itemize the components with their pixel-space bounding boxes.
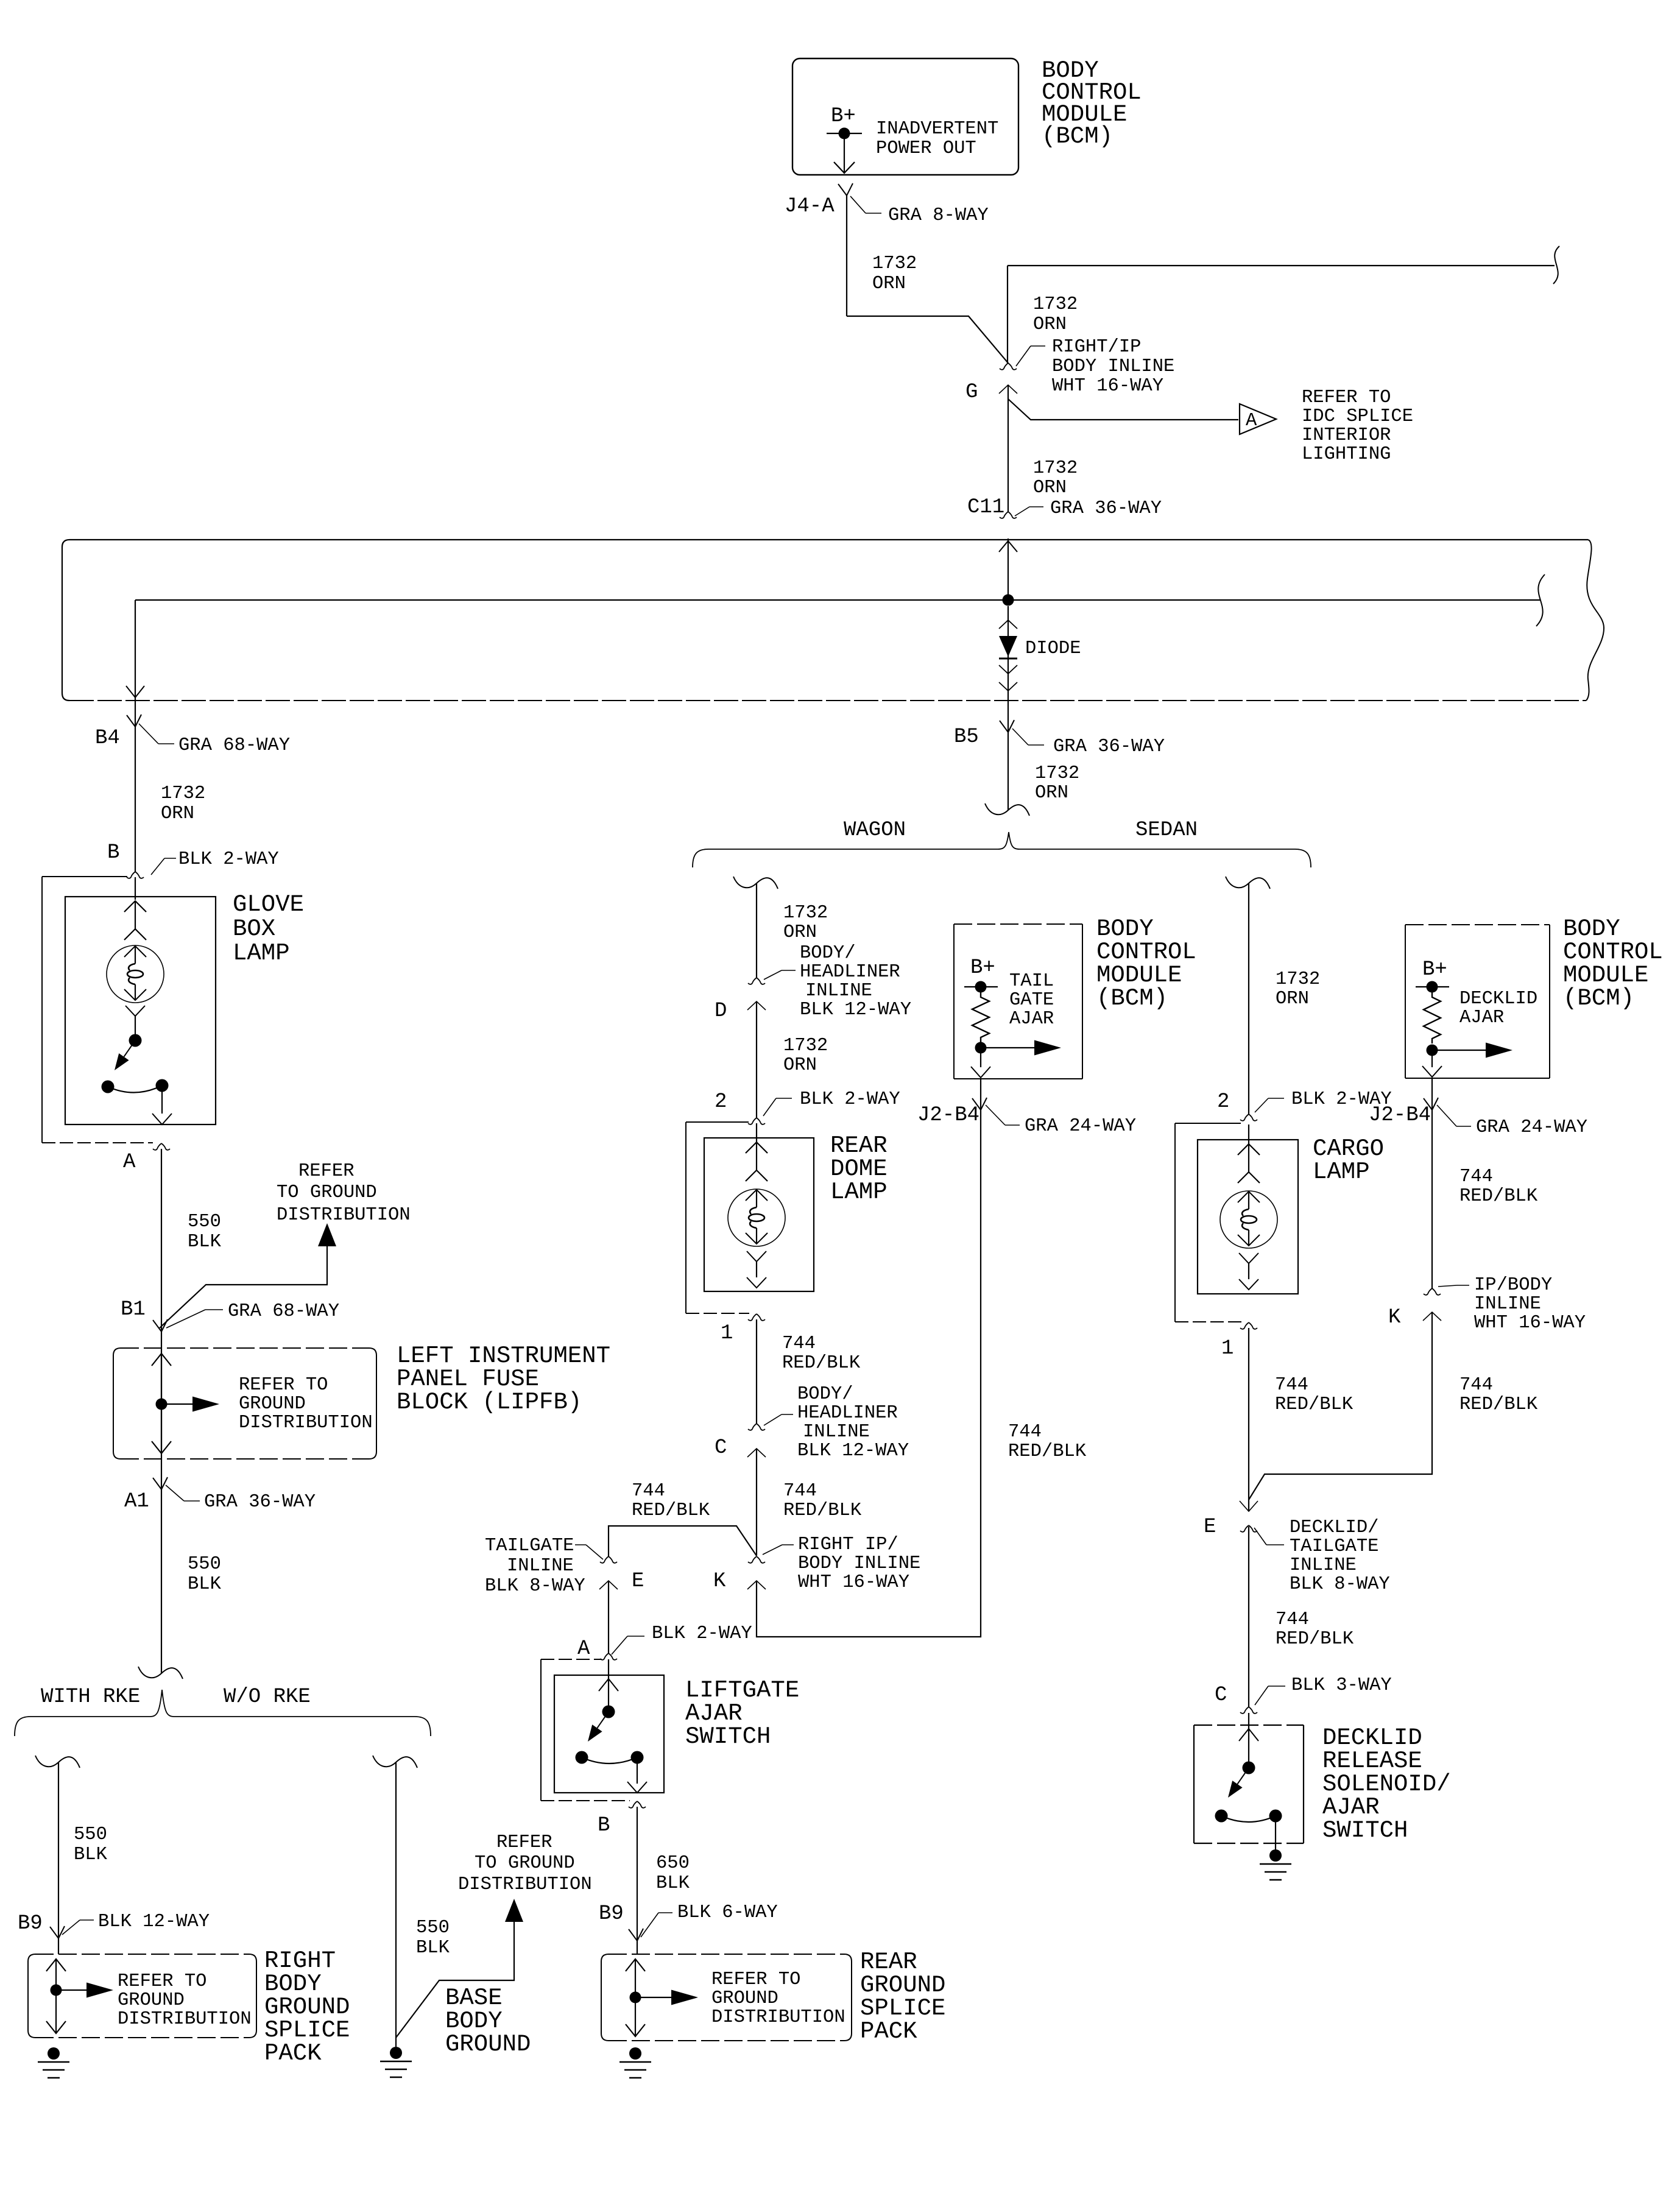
svg-text:RED/BLK: RED/BLK xyxy=(1275,1394,1354,1415)
svg-text:WITH RKE: WITH RKE xyxy=(41,1686,140,1709)
leader BLK 2-WAY (rear dome 2) xyxy=(763,1098,776,1116)
svg-text:E: E xyxy=(1204,1516,1216,1539)
harness box left edge xyxy=(62,540,69,701)
split RKE options xyxy=(138,1667,183,1679)
svg-text:SWITCH: SWITCH xyxy=(1322,1817,1408,1844)
arrow up below K xyxy=(747,1581,766,1589)
svg-text:RIGHT IP/: RIGHT IP/ xyxy=(798,1534,898,1555)
glove box lamp inner box xyxy=(65,897,216,1124)
svg-text:A1: A1 xyxy=(124,1490,149,1513)
decklid ajar BCM box xyxy=(1405,924,1550,925)
decklid release solenoid box xyxy=(1193,1725,1195,1843)
leader GRA 8-WAY xyxy=(850,196,866,213)
connector 1 rear dome xyxy=(748,1314,757,1321)
diode xyxy=(999,636,1017,657)
inline connector C11 xyxy=(1000,512,1008,518)
ground (rear splice pack) xyxy=(629,2047,641,2060)
svg-text:BLOCK (LIPFB): BLOCK (LIPFB) xyxy=(397,1389,582,1416)
triangle A refer to IDC splice xyxy=(1240,404,1276,434)
arrow up below C xyxy=(747,1449,766,1457)
svg-text:GLOVE: GLOVE xyxy=(233,891,304,918)
resistor decklid ajar xyxy=(1424,992,1441,1043)
BCM box (inadvertent power out) xyxy=(792,58,1018,175)
wire J4-A down xyxy=(846,196,847,316)
svg-text:1732: 1732 xyxy=(1033,294,1078,315)
svg-text:ORN: ORN xyxy=(1035,783,1068,803)
svg-text:AJAR: AJAR xyxy=(1459,1008,1504,1028)
svg-text:J4-A: J4-A xyxy=(785,195,835,218)
svg-text:C: C xyxy=(1215,1684,1227,1707)
connector 2 rear dome xyxy=(748,1118,757,1124)
svg-text:BODY INLINE: BODY INLINE xyxy=(1052,356,1174,377)
svg-text:BODY/: BODY/ xyxy=(797,1384,853,1405)
svg-text:1732: 1732 xyxy=(783,903,828,923)
svg-text:ORN: ORN xyxy=(1276,989,1309,1009)
B+ feed dot and bar xyxy=(827,133,862,134)
leader BLK 6-WAY xyxy=(641,1913,658,1937)
svg-text:DECKLID: DECKLID xyxy=(1459,989,1537,1009)
svg-text:A: A xyxy=(577,1637,590,1661)
svg-text:K: K xyxy=(1388,1306,1401,1329)
wire B4 to glove box xyxy=(135,727,136,872)
wire into rear dome lamp xyxy=(756,1123,757,1142)
connector 1 cargo xyxy=(1240,1322,1249,1329)
harness box bottom edge dashed xyxy=(69,700,1586,701)
svg-text:D: D xyxy=(715,1000,727,1023)
inline connector K ip/body xyxy=(1424,1288,1432,1295)
leader GRA 36-WAY (A1) xyxy=(166,1485,184,1501)
svg-text:(BCM): (BCM) xyxy=(1563,985,1634,1012)
arrow down above E (sedan) xyxy=(1240,1501,1258,1511)
leader BLK 3-WAY xyxy=(1255,1686,1268,1705)
wire A1 down xyxy=(161,1489,162,1673)
wire E down to liftgate A xyxy=(608,1581,609,1653)
svg-text:550: 550 xyxy=(188,1554,221,1575)
wire into glove lamp xyxy=(135,877,136,900)
leader RIGHT IP label (K) xyxy=(763,1545,782,1555)
svg-text:LAMP: LAMP xyxy=(233,940,290,967)
hook w/o-RKE branch xyxy=(373,1756,417,1768)
inline connector K right ip/body xyxy=(748,1556,757,1563)
leader BLK 2-WAY (B) xyxy=(151,858,164,875)
arrow up below E xyxy=(599,1581,618,1589)
svg-text:WHT 16-WAY: WHT 16-WAY xyxy=(1474,1313,1586,1333)
svg-text:744: 744 xyxy=(782,1333,816,1354)
wire with-RKE down xyxy=(58,1762,59,1938)
wire B9 to rear splice pack xyxy=(637,1941,638,1954)
svg-text:J2-B4: J2-B4 xyxy=(917,1104,979,1127)
splice pack internal ground symbol xyxy=(55,1959,57,2033)
inline connector C body/headliner xyxy=(748,1424,757,1430)
hook with-RKE branch xyxy=(35,1756,80,1768)
rear dome lamp wrapper xyxy=(686,1121,749,1123)
arrow up below D xyxy=(747,1001,766,1010)
lamp pins (cargo) xyxy=(1248,1144,1249,1172)
wire C11 to harness xyxy=(1008,538,1009,600)
svg-text:1732: 1732 xyxy=(1033,458,1078,479)
leader DECKLID/TAILGATE label xyxy=(1254,1528,1266,1545)
svg-text:B9: B9 xyxy=(18,1912,43,1935)
svg-text:744: 744 xyxy=(1459,1167,1493,1187)
svg-text:REFER: REFER xyxy=(496,1832,552,1853)
lamp lower pins (rear dome) xyxy=(747,1251,766,1262)
svg-text:TAIL: TAIL xyxy=(1009,971,1054,992)
connector B9 middle xyxy=(629,1929,637,1941)
svg-text:G: G xyxy=(965,381,978,404)
connector B glove box xyxy=(127,872,135,878)
LIPFB box xyxy=(113,1348,121,1452)
ground (decklid switch) xyxy=(1269,1849,1282,1862)
leader GRA 68-WAY (B1) xyxy=(166,1310,205,1328)
svg-text:GROUND: GROUND xyxy=(239,1394,306,1414)
svg-text:BLK 8-WAY: BLK 8-WAY xyxy=(1290,1574,1390,1595)
inline connector E tailgate inline xyxy=(600,1556,609,1563)
svg-text:550: 550 xyxy=(74,1824,107,1845)
leader TAILGATE label to E xyxy=(575,1544,586,1545)
svg-text:HEADLINER: HEADLINER xyxy=(797,1403,898,1424)
wire K to tailgate BCM J2-B4 xyxy=(757,1110,981,1637)
svg-text:DISTRIBUTION: DISTRIBUTION xyxy=(118,2009,252,2030)
wire B1 to A1 xyxy=(161,1332,162,1489)
exit arrow down xyxy=(980,1053,981,1067)
diode branch wire down xyxy=(1008,606,1009,732)
connector J2-B4 right xyxy=(1424,1098,1432,1110)
svg-text:LAMP: LAMP xyxy=(1313,1159,1370,1185)
svg-text:K: K xyxy=(713,1570,726,1593)
svg-text:TO GROUND: TO GROUND xyxy=(475,1853,575,1874)
wire K to E junction xyxy=(1249,1312,1432,1500)
svg-text:744: 744 xyxy=(783,1481,817,1502)
svg-text:INLINE: INLINE xyxy=(803,1422,870,1442)
rear splice internal ground symbol xyxy=(635,1959,636,2036)
wire 1 to C xyxy=(756,1319,757,1424)
svg-text:REFER TO: REFER TO xyxy=(1302,387,1391,408)
svg-text:INLINE: INLINE xyxy=(507,1556,574,1576)
svg-text:(BCM): (BCM) xyxy=(1096,985,1168,1012)
junction node bus/diode xyxy=(1003,595,1014,606)
arrow up below K right xyxy=(1423,1312,1441,1321)
lamp pins (rear dome) xyxy=(756,1142,757,1170)
svg-text:BLK: BLK xyxy=(416,1938,450,1958)
svg-text:IP/BODY: IP/BODY xyxy=(1474,1275,1552,1296)
svg-text:GROUND: GROUND xyxy=(118,1990,185,2011)
svg-text:REFER TO: REFER TO xyxy=(118,1971,206,1992)
svg-text:1: 1 xyxy=(1221,1337,1234,1360)
svg-text:A: A xyxy=(1246,411,1257,431)
svg-text:GRA 68-WAY: GRA 68-WAY xyxy=(178,735,290,756)
glove box wrapper outline xyxy=(42,876,127,877)
svg-text:GRA 24-WAY: GRA 24-WAY xyxy=(1476,1117,1587,1138)
cargo lamp inner box xyxy=(1198,1140,1298,1294)
wire jog to inline G xyxy=(847,316,1008,363)
left bus drop wire xyxy=(135,600,136,727)
svg-text:INLINE: INLINE xyxy=(805,981,872,1001)
wire E down to C xyxy=(1248,1527,1249,1707)
svg-text:B: B xyxy=(107,841,119,864)
svg-text:1: 1 xyxy=(721,1322,733,1345)
svg-text:ORN: ORN xyxy=(1033,478,1067,498)
svg-text:1732: 1732 xyxy=(161,783,205,804)
leader GRA 24-WAY (middle) xyxy=(986,1105,1005,1125)
connector B4 xyxy=(127,715,135,727)
wire B5 down to split xyxy=(1008,732,1009,810)
connector B1 xyxy=(153,1320,161,1332)
svg-text:INADVERTENT: INADVERTENT xyxy=(876,119,998,139)
svg-text:GRA 8-WAY: GRA 8-WAY xyxy=(888,205,989,226)
wire A to B1 xyxy=(161,1149,162,1332)
liftgate ajar switch box xyxy=(554,1675,664,1793)
svg-text:550: 550 xyxy=(416,1918,450,1938)
wire into decklid switch xyxy=(1248,1713,1249,1729)
svg-text:C11: C11 xyxy=(967,496,1004,519)
svg-text:RIGHT/IP: RIGHT/IP xyxy=(1052,337,1141,358)
resistor tail gate ajar xyxy=(972,992,989,1042)
connector J2-B4 middle xyxy=(972,1098,981,1110)
svg-text:J2-B4: J2-B4 xyxy=(1369,1104,1431,1127)
inadvertent power out arrow xyxy=(844,139,845,173)
leader IP/BODY label xyxy=(1438,1285,1457,1287)
lamp pins (glove box) xyxy=(135,901,136,929)
svg-text:B+: B+ xyxy=(831,105,856,128)
arrow up below junction xyxy=(999,620,1017,629)
connector A1 xyxy=(153,1478,161,1489)
output node dot xyxy=(975,1042,987,1054)
branch wire to IDC splice xyxy=(1008,399,1238,420)
svg-text:GROUND: GROUND xyxy=(445,2031,531,2058)
wire B9 to splice pack xyxy=(58,1938,59,1954)
svg-text:TAILGATE: TAILGATE xyxy=(1290,1536,1378,1557)
wire 1 down to E xyxy=(1248,1328,1249,1511)
svg-text:REFER: REFER xyxy=(298,1161,355,1182)
wire into liftgate switch xyxy=(608,1659,609,1679)
svg-text:GRA 36-WAY: GRA 36-WAY xyxy=(1050,498,1162,519)
svg-text:A: A xyxy=(123,1151,136,1174)
svg-text:RED/BLK: RED/BLK xyxy=(1276,1629,1354,1650)
leader GRA 68-WAY (B4) xyxy=(139,724,158,744)
svg-text:2: 2 xyxy=(715,1090,727,1114)
svg-text:1732: 1732 xyxy=(1276,969,1320,990)
leader GRA 36-WAY (B5) xyxy=(1012,729,1028,745)
connector J4-A xyxy=(838,184,847,196)
svg-text:BLK 2-WAY: BLK 2-WAY xyxy=(652,1623,752,1644)
wire BCM to J2-B4 xyxy=(980,1079,981,1110)
wire BCM to J2-B4 right xyxy=(1431,1078,1433,1110)
output arrow (decklid) xyxy=(1432,1050,1489,1051)
svg-text:RED/BLK: RED/BLK xyxy=(632,1500,710,1521)
svg-text:GRA 36-WAY: GRA 36-WAY xyxy=(204,1492,316,1513)
arrow up into harness top xyxy=(999,541,1017,552)
arrow down at harness bottom left drop xyxy=(126,686,144,697)
svg-text:WHT 16-WAY: WHT 16-WAY xyxy=(1052,376,1163,397)
refer-to-ground branch (base body) xyxy=(396,1922,514,2038)
svg-text:WAGON: WAGON xyxy=(844,819,906,842)
connector B5 xyxy=(1000,721,1008,732)
svg-text:(BCM): (BCM) xyxy=(1042,123,1113,150)
svg-text:BODY INLINE: BODY INLINE xyxy=(798,1553,920,1574)
lamp lower pins (cargo) xyxy=(1239,1253,1258,1263)
svg-text:E: E xyxy=(632,1570,644,1593)
inner bus break squiggle xyxy=(1536,574,1545,626)
svg-text:GRA 36-WAY: GRA 36-WAY xyxy=(1053,736,1165,757)
svg-text:SWITCH: SWITCH xyxy=(685,1723,771,1750)
svg-text:B5: B5 xyxy=(954,725,979,749)
wire D to rear dome lamp xyxy=(756,1001,757,1118)
wire into cargo lamp xyxy=(1248,1124,1249,1144)
lamp bulb (rear dome) xyxy=(728,1189,785,1246)
lamp bulb (cargo) xyxy=(1220,1191,1277,1248)
svg-text:RED/BLK: RED/BLK xyxy=(1008,1441,1087,1462)
wire w/o-RKE down xyxy=(395,1762,397,2047)
svg-text:ORN: ORN xyxy=(1033,314,1067,335)
svg-text:INTERIOR: INTERIOR xyxy=(1302,425,1391,446)
svg-text:BLK 2-WAY: BLK 2-WAY xyxy=(178,849,279,870)
svg-text:DISTRIBUTION: DISTRIBUTION xyxy=(711,2007,845,2028)
cargo lamp wrapper xyxy=(1175,1123,1241,1124)
svg-text:BLK 8-WAY: BLK 8-WAY xyxy=(485,1576,585,1597)
svg-text:BLK 6-WAY: BLK 6-WAY xyxy=(677,1902,778,1923)
svg-text:DISTRIBUTION: DISTRIBUTION xyxy=(458,1874,592,1895)
svg-text:ORN: ORN xyxy=(783,922,817,943)
glove box switch xyxy=(125,1006,145,1016)
svg-text:AJAR: AJAR xyxy=(1009,1009,1054,1029)
decklid switch internals xyxy=(1239,1729,1258,1741)
leader BLK 12-WAY (B9 left) xyxy=(62,1920,80,1935)
svg-text:BLK: BLK xyxy=(74,1845,108,1865)
svg-text:INLINE: INLINE xyxy=(1474,1294,1541,1315)
svg-text:POWER OUT: POWER OUT xyxy=(876,138,976,159)
connector A liftgate xyxy=(600,1653,609,1660)
ground (base body) xyxy=(390,2047,402,2059)
top rail wire 1732 ORN xyxy=(1008,265,1555,266)
svg-text:1732: 1732 xyxy=(1035,763,1079,784)
svg-text:GRA 24-WAY: GRA 24-WAY xyxy=(1025,1116,1136,1137)
svg-text:744: 744 xyxy=(1008,1422,1042,1442)
svg-text:BODY/: BODY/ xyxy=(800,943,856,964)
svg-text:GRA 68-WAY: GRA 68-WAY xyxy=(228,1301,339,1322)
svg-text:LIGHTING: LIGHTING xyxy=(1302,444,1391,465)
wire wagon down to D xyxy=(756,883,757,978)
svg-text:TAILGATE: TAILGATE xyxy=(485,1536,574,1556)
lamp bulb (glove box) xyxy=(107,945,164,1003)
svg-text:B1: B1 xyxy=(121,1298,146,1321)
right body ground splice pack box xyxy=(28,1954,35,2030)
svg-text:B9: B9 xyxy=(599,1902,624,1926)
brace WITH RKE / W/O RKE xyxy=(15,1690,431,1736)
svg-text:RED/BLK: RED/BLK xyxy=(782,1353,861,1374)
svg-text:W/O RKE: W/O RKE xyxy=(224,1686,311,1709)
output node dot (decklid) xyxy=(1427,1045,1438,1056)
svg-text:REFER TO: REFER TO xyxy=(239,1375,328,1396)
svg-text:RED/BLK: RED/BLK xyxy=(783,1500,862,1521)
leader BLK 2-WAY (liftgate A) xyxy=(627,1636,644,1637)
inner bus wire 1732 ORN xyxy=(135,599,1540,601)
liftgate switch internals xyxy=(599,1679,618,1691)
exit arrow down (decklid BCM) xyxy=(1431,1056,1433,1067)
svg-text:BLK 12-WAY: BLK 12-WAY xyxy=(797,1441,909,1461)
wire J2-B4 down to K xyxy=(1431,1110,1433,1288)
hook wagon branch xyxy=(733,877,778,889)
svg-text:RED/BLK: RED/BLK xyxy=(1459,1186,1538,1207)
leader BLK 2-WAY (cargo 2) xyxy=(1255,1098,1268,1112)
svg-text:BLK 12-WAY: BLK 12-WAY xyxy=(98,1912,210,1932)
rear ground splice pack box xyxy=(601,1954,609,2033)
svg-text:GATE: GATE xyxy=(1009,990,1054,1011)
svg-text:744: 744 xyxy=(1275,1375,1308,1396)
hook sedan branch xyxy=(1226,877,1270,889)
connector C decklid xyxy=(1240,1707,1249,1714)
brace WAGON / SEDAN xyxy=(693,832,1311,867)
arrow up below G xyxy=(999,385,1017,394)
svg-text:744: 744 xyxy=(1459,1375,1493,1396)
svg-text:550: 550 xyxy=(188,1212,221,1232)
svg-text:DECKLID/: DECKLID/ xyxy=(1290,1517,1378,1538)
svg-text:C: C xyxy=(715,1436,727,1460)
svg-text:BLK 12-WAY: BLK 12-WAY xyxy=(800,1000,911,1020)
svg-text:PACK: PACK xyxy=(264,2040,322,2067)
svg-text:GROUND: GROUND xyxy=(711,1988,778,2009)
connector B liftgate xyxy=(629,1801,637,1808)
rear dome lamp inner box xyxy=(704,1138,814,1291)
arrows down above harness bottom edge xyxy=(999,665,1017,674)
wire sedan down to 2 xyxy=(1248,883,1249,1114)
wire E jog to K xyxy=(609,1526,757,1556)
top rail break squiggle xyxy=(1553,246,1559,284)
inline connector E decklid/tailgate xyxy=(1240,1525,1249,1532)
inline connector D body/headliner xyxy=(748,978,757,984)
LIPFB internal ground symbol xyxy=(161,1354,162,1453)
svg-text:REFER TO: REFER TO xyxy=(711,1969,800,1990)
wire B to B9 xyxy=(637,1807,638,1941)
svg-text:RED/BLK: RED/BLK xyxy=(1459,1394,1538,1415)
svg-text:1732: 1732 xyxy=(872,253,917,274)
wire below G xyxy=(1008,385,1009,512)
svg-text:BLK: BLK xyxy=(656,1873,690,1894)
tailgate ajar BCM box xyxy=(954,923,1082,925)
svg-text:BLK 3-WAY: BLK 3-WAY xyxy=(1291,1675,1392,1696)
ground (right body splice pack) xyxy=(48,2047,60,2060)
svg-text:ORN: ORN xyxy=(872,274,906,294)
svg-text:ORN: ORN xyxy=(783,1055,817,1076)
svg-text:B4: B4 xyxy=(95,727,120,750)
svg-text:2: 2 xyxy=(1217,1090,1229,1114)
svg-text:INLINE: INLINE xyxy=(1290,1555,1357,1576)
svg-text:HEADLINER: HEADLINER xyxy=(800,962,900,983)
refer-to-ground branch (upper left) xyxy=(160,1245,327,1328)
svg-text:DISTRIBUTION: DISTRIBUTION xyxy=(239,1413,373,1433)
liftgate wrapper dashes xyxy=(541,1659,602,1660)
svg-text:LAMP: LAMP xyxy=(830,1179,888,1206)
svg-text:IDC SPLICE: IDC SPLICE xyxy=(1302,406,1413,427)
svg-text:744: 744 xyxy=(1276,1609,1309,1630)
svg-text:B: B xyxy=(598,1814,610,1837)
svg-text:BLK: BLK xyxy=(188,1232,222,1252)
inline connector G RIGHT/IP BODY INLINE xyxy=(1000,363,1008,370)
svg-text:SEDAN: SEDAN xyxy=(1135,819,1198,842)
split wagon/sedan xyxy=(985,803,1029,816)
svg-text:WHT 16-WAY: WHT 16-WAY xyxy=(798,1572,909,1593)
svg-text:650: 650 xyxy=(656,1853,690,1874)
svg-text:DIODE: DIODE xyxy=(1025,638,1081,659)
harness box right wavy edge xyxy=(1586,540,1604,701)
svg-text:DISTRIBUTION: DISTRIBUTION xyxy=(277,1205,411,1226)
harness box top edge xyxy=(69,539,1588,540)
svg-text:BLK 2-WAY: BLK 2-WAY xyxy=(800,1089,900,1110)
leader GRA 24-WAY (right) xyxy=(1437,1105,1456,1126)
svg-text:B+: B+ xyxy=(1422,958,1447,981)
svg-text:BLK: BLK xyxy=(188,1574,222,1595)
svg-text:BOX: BOX xyxy=(233,916,275,942)
connector 2 cargo xyxy=(1240,1114,1249,1121)
